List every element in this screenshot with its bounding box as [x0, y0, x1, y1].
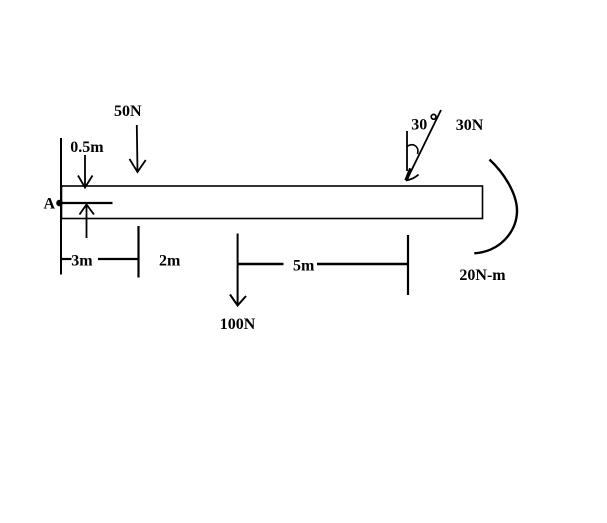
- force 50N arrow: [130, 125, 146, 172]
- beam (rectangle): [62, 186, 483, 219]
- svg-text:A: A: [44, 196, 56, 213]
- force 30N inclined arrow: [406, 110, 441, 181]
- svg-text:3m: 3m: [71, 252, 93, 269]
- svg-text:30N: 30N: [456, 117, 484, 134]
- 0.5m down arrow: [78, 155, 93, 188]
- support line at A: [60, 138, 62, 275]
- moment 20N-m curved arrow: [474, 160, 517, 254]
- dimension 3m line: [61, 258, 139, 260]
- svg-text:50N: 50N: [114, 103, 142, 120]
- 0.5m up arrow: [80, 205, 95, 239]
- svg-text:30: 30: [411, 117, 427, 134]
- svg-text:2m: 2m: [159, 252, 181, 269]
- 30 degree vertical reference line: [406, 131, 408, 171]
- dimension 5m line: [238, 263, 408, 266]
- point A dot: [56, 200, 63, 207]
- force 100N arrow: [230, 234, 246, 306]
- svg-text:100N: 100N: [220, 316, 256, 333]
- svg-text:5m: 5m: [293, 258, 315, 275]
- dimension tick at 5m: [407, 235, 409, 295]
- angle arc: [407, 145, 418, 154]
- mid reference line at A: [61, 202, 113, 204]
- svg-text:20N-m: 20N-m: [459, 267, 506, 284]
- svg-text:0.5m: 0.5m: [70, 139, 104, 156]
- dimension tick at 3m: [137, 226, 139, 278]
